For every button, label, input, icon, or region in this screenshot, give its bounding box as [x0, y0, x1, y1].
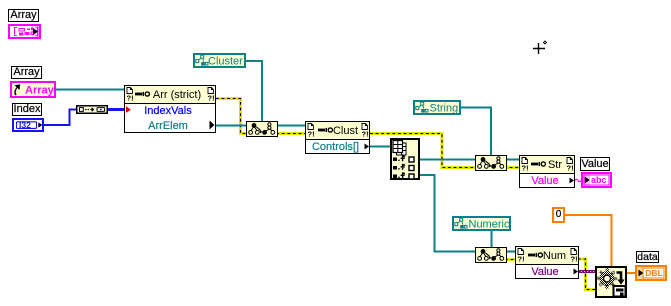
function: Build Array: [76, 105, 108, 114]
wire: error/dashed from Clust node to Str node: [370, 134, 519, 168]
svg-text:abc: abc: [591, 175, 607, 185]
svg-text:?!: ?!: [567, 164, 574, 173]
property node: Clust: [305, 121, 370, 154]
svg-text:DBL: DBL: [645, 268, 662, 278]
svg-text:Clust: Clust: [333, 125, 358, 137]
wire: Index Array row3 to cast3 (teal): [420, 175, 475, 252]
wire: error/dashed cast3 to Num node: [505, 258, 515, 261]
wire: 0 constant to Variant To Data (orange): [565, 215, 612, 266]
svg-text:I32: I32: [19, 120, 31, 130]
wire: Num Value variant to Variant To Data (purple dotted): [578, 270, 595, 273]
svg-text:?!: ?!: [518, 255, 525, 264]
wire: Index Array row1 to cast2 (teal): [420, 159, 475, 161]
wire: error/dashed from Arr node to Clust node: [216, 99, 305, 134]
label: Index: [12, 103, 42, 116]
function: To More Specific Class (cast 1): [246, 121, 278, 137]
svg-text:Cluster: Cluster: [208, 56, 243, 68]
function: To More Specific Class (cast 3): [475, 247, 507, 263]
label: Array (top-left indicator): [8, 9, 39, 22]
constant: Numeric class specifier: [452, 216, 511, 231]
wire: ArrElem ref to cast1 and on to Clust (teal): [216, 125, 305, 127]
svg-text:String: String: [430, 103, 459, 115]
function: Index Array: [390, 138, 420, 180]
svg-text:?!: ?!: [362, 130, 369, 139]
indicator: DBL terminal: [635, 265, 667, 281]
terminal: array-of-clusters indicator icon: [8, 24, 41, 39]
wire: Variant To Data to DBL indicator (orange): [626, 272, 635, 274]
property node: Num: [515, 246, 579, 279]
wire: Cluster class constant to cast1 (teal): [246, 61, 262, 121]
svg-text:Num: Num: [543, 250, 566, 262]
svg-text:?!: ?!: [308, 130, 315, 139]
property node: Str: [519, 155, 575, 188]
label: data: [636, 251, 659, 263]
wire: Str Value to string indicator (pink squiggle): [575, 179, 581, 181]
svg-text:Arr (strict): Arr (strict): [153, 89, 201, 101]
svg-text:Str: Str: [548, 159, 562, 171]
wire: Build Array to IndexVals (thick blue array): [108, 108, 125, 111]
svg-text:?!: ?!: [522, 164, 529, 173]
constant: Cluster class specifier: [193, 53, 246, 68]
wire: error/dashed Num node to Variant To Data: [578, 259, 595, 290]
svg-text:Numeric: Numeric: [469, 219, 510, 231]
wire: String class constant to cast2 (teal): [461, 108, 491, 156]
wire: cast2 to Str node (teal): [507, 159, 519, 161]
svg-text:?!: ?!: [208, 94, 215, 103]
wire: Controls[] to Index Array (teal): [370, 146, 390, 148]
wire: Numeric class constant to cast3 (teal): [491, 230, 493, 247]
label: Array (refnum control): [11, 66, 42, 79]
constant: 0 (numeric): [552, 207, 565, 223]
wire: cast3 to Num node (teal): [507, 251, 515, 253]
function: Variant To Data: [595, 266, 627, 298]
svg-text:Array: Array: [25, 85, 55, 97]
function: To More Specific Class (cast 2): [475, 155, 507, 171]
indicator: string abc terminal: [581, 172, 612, 188]
constant: String class specifier: [413, 100, 461, 115]
svg-text:?!: ?!: [127, 94, 134, 103]
property node: Arr (strict): [124, 85, 216, 133]
wire: I32 Index to Build Array (blue): [44, 110, 76, 126]
svg-text:?!: ?!: [571, 255, 578, 264]
control: I32 numeric control terminal: [12, 118, 44, 132]
control: Array control refnum: [10, 81, 56, 98]
label: Value: [580, 157, 610, 171]
wire: Array refnum to Arr property node (teal): [56, 89, 124, 91]
cursor: wiring crosshair: [530, 38, 550, 58]
